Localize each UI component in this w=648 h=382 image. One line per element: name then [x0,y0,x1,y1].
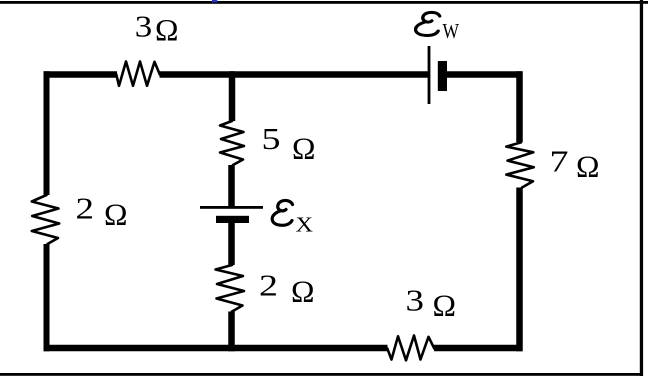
battery EX long thin plate [200,206,263,209]
wire left lower segment [44,244,50,351]
wire right upper segment [516,71,523,142]
frame top border [0,1,648,4]
wire middle between battery X and 2ohm [228,223,235,266]
svg-text:3: 3 [406,283,425,318]
label script-E of EMF X [272,200,292,225]
svg-text:2: 2 [76,191,95,226]
svg-text:Ω: Ω [291,274,315,309]
svg-text:X: X [296,213,314,237]
wire right lower segment [516,188,523,352]
resistor R right 7ohm zigzag [506,142,534,187]
wire left upper segment [44,71,50,195]
wire middle between 5ohm and battery X [228,165,235,207]
resistor R top 3ohm zigzag [116,62,160,86]
wire top-right segment [446,71,522,78]
wire bottom-left segment [44,345,388,352]
battery EW short thick plate [438,61,447,91]
wire top-left segment [44,71,118,78]
wire top-middle segment [160,71,429,78]
blue mark on top border [212,0,217,2]
svg-text:Ω: Ω [104,197,128,232]
frame bottom border [0,373,643,376]
label script-E of EMF W [416,12,440,35]
svg-text:Ω: Ω [576,149,600,184]
svg-text:Ω: Ω [155,12,179,47]
battery EW long thin plate [428,46,431,104]
svg-text:2: 2 [259,268,278,303]
wire middle lower segment [228,312,235,352]
frame right border [640,0,643,376]
resistor R left 2ohm zigzag [32,195,59,244]
svg-text:Ω: Ω [292,131,316,166]
svg-text:5: 5 [262,121,281,156]
wire middle upper segment [229,71,236,121]
resistor R bottom 3ohm zigzag [387,336,434,361]
resistor R middle 2ohm zigzag [216,265,245,312]
svg-text:7: 7 [550,144,569,179]
resistor R middle 5ohm zigzag [220,121,244,165]
battery EX short thick plate [216,216,249,223]
svg-text:Ω: Ω [433,288,457,323]
wire bottom-right segment [434,345,522,352]
svg-text:3: 3 [135,9,153,44]
svg-text:W: W [443,19,460,43]
